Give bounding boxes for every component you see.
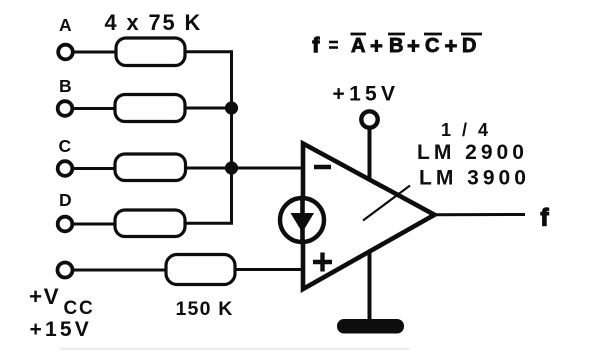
wire resistor A to bus xyxy=(185,50,232,53)
label f output xyxy=(541,205,550,232)
annotation slash to part label xyxy=(363,186,410,221)
wire A terminal to resistor xyxy=(74,51,117,54)
label LM3900 xyxy=(419,167,530,190)
wire Vcc terminal to 150K resistor xyxy=(74,269,167,272)
svg-text:150 K: 150 K xyxy=(176,298,234,320)
wire D terminal to resistor xyxy=(74,223,117,226)
ground xyxy=(337,319,404,334)
value label 4 x 75K xyxy=(105,10,203,35)
scan artifact faint streak bottom xyxy=(60,348,410,351)
input terminal C xyxy=(58,161,73,176)
svg-text:+15V: +15V xyxy=(333,82,400,105)
output wire xyxy=(434,213,525,216)
label 1/4 xyxy=(441,120,491,140)
svg-text:1 / 4: 1 / 4 xyxy=(441,120,491,140)
svg-text:+15V: +15V xyxy=(30,318,92,341)
svg-text:LM 3900: LM 3900 xyxy=(419,167,530,190)
supply terminal +15V xyxy=(361,111,377,127)
svg-text:+: + xyxy=(445,34,458,59)
svg-text:4 x 75 K: 4 x 75 K xyxy=(105,10,203,35)
minus input symbol xyxy=(314,165,331,169)
label A xyxy=(59,15,72,35)
label D xyxy=(59,190,72,210)
svg-text:B: B xyxy=(389,35,403,57)
junction node C xyxy=(225,161,238,174)
op-amp U1 triangle xyxy=(303,144,435,290)
wire node C to op-amp minus input xyxy=(185,167,304,170)
wire C terminal to resistor xyxy=(74,167,117,170)
svg-text:+V: +V xyxy=(29,284,60,309)
wire +15V to op-amp top edge xyxy=(368,128,372,181)
resistor RC 75K xyxy=(115,154,186,181)
current source symbol circle xyxy=(280,198,324,242)
svg-text:f: f xyxy=(313,35,320,57)
resistor RD 75K xyxy=(115,210,185,237)
label +Vcc xyxy=(29,284,95,319)
svg-text:D: D xyxy=(462,35,476,57)
svg-text:f: f xyxy=(541,205,550,232)
resistor RB 75K xyxy=(115,95,185,122)
label B xyxy=(59,76,72,96)
label LM2900 xyxy=(417,141,528,164)
svg-text:CC: CC xyxy=(64,298,95,319)
input terminal B xyxy=(58,101,73,116)
bias terminal +Vcc xyxy=(58,263,73,278)
label +15V supply xyxy=(333,82,400,105)
current source arrowhead xyxy=(291,213,315,233)
svg-text:C: C xyxy=(425,35,439,57)
input terminal D xyxy=(58,217,73,232)
plus input symbol xyxy=(313,253,332,272)
wire B terminal to resistor xyxy=(74,107,117,110)
label C xyxy=(59,136,72,156)
formula f = /A + /B + /C + /D xyxy=(313,34,483,59)
resistor RA 75K xyxy=(116,38,185,66)
svg-text:B: B xyxy=(59,76,72,96)
label +15V lower xyxy=(30,318,92,341)
svg-text:C: C xyxy=(59,136,72,156)
svg-text:+: + xyxy=(407,34,420,59)
svg-text:LM 2900: LM 2900 xyxy=(417,141,528,164)
current source stem wire xyxy=(300,197,305,243)
wire resistor D to bus xyxy=(185,222,233,225)
wire summing bus vertical xyxy=(230,50,233,223)
svg-text:A: A xyxy=(59,15,72,35)
svg-text:A: A xyxy=(351,35,365,57)
input terminal A xyxy=(58,45,73,60)
svg-text:D: D xyxy=(59,190,72,210)
wire resistor B to bus xyxy=(185,107,232,110)
wire 150K resistor to op-amp plus input xyxy=(235,268,304,271)
junction node B xyxy=(225,101,238,114)
value label 150K xyxy=(176,298,234,320)
resistor 150K xyxy=(166,255,235,285)
svg-text:+: + xyxy=(370,34,383,59)
wire op-amp bottom edge to ground xyxy=(368,251,372,320)
